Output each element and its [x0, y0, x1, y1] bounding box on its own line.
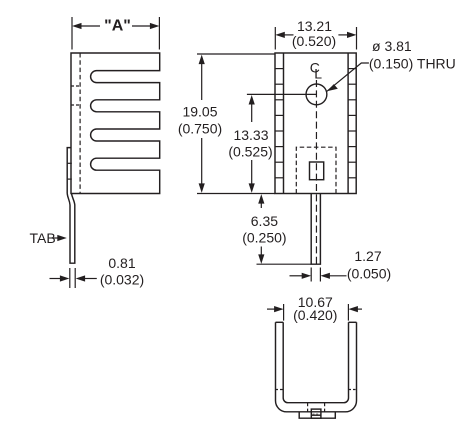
hole leader line [327, 63, 369, 91]
bottom view tab hidden dash inside [313, 413, 320, 415]
die pad square [310, 162, 324, 180]
dimension 1.27 arrow left [290, 273, 312, 279]
dimension 13.21 extension line right [356, 27, 358, 50]
side view hidden bend line (dashed) [79, 53, 81, 194]
dimension 19.05 arrow top [199, 55, 205, 100]
side view heatsink body with fin slots [71, 53, 160, 194]
dimension A arrow left [72, 23, 100, 29]
bottom view tab hidden lines [307, 403, 309, 412]
dimension 6.35 arrow top [258, 194, 264, 208]
dimension 6.35 arrow bottom [258, 247, 264, 264]
svg-text:(0.520): (0.520) [292, 33, 336, 49]
package outline (dashed) [296, 147, 336, 193]
svg-text:ø 3.81: ø 3.81 [372, 38, 412, 54]
tab plate tick 2 [67, 178, 72, 180]
hole center horizontal extension line [247, 93, 317, 95]
front view right fin strip inner line [347, 53, 349, 194]
bottom view right leg top cap [349, 321, 357, 323]
dimension 0.81 arrow left [50, 275, 70, 281]
svg-text:(0.050): (0.050) [347, 266, 391, 282]
side view hidden tick 1 [71, 85, 80, 87]
dimension 10.67 extension line right [347, 304, 349, 321]
side view hidden tick 2 [71, 104, 80, 106]
dimension 10.67 arrow left [267, 306, 284, 312]
dimension 13.21 arrow right [338, 32, 356, 38]
dimension 0.81 extension line left [69, 268, 71, 288]
svg-text:(0.032): (0.032) [100, 272, 144, 288]
dimension 19.05 arrow bottom [199, 138, 205, 193]
tab plate tick 1 [67, 162, 72, 164]
svg-text:13.21: 13.21 [297, 18, 332, 34]
front view body outline [275, 53, 356, 194]
side view tab bend and lower strip [67, 194, 75, 264]
svg-text:19.05: 19.05 [182, 104, 217, 120]
svg-text:(0.750): (0.750) [178, 121, 222, 137]
svg-text:(0.150) THRU: (0.150) THRU [369, 56, 456, 72]
dimension 13.21 extension line left [274, 27, 276, 50]
dimension 13.21 arrow left [275, 32, 293, 38]
svg-text:L: L [314, 65, 322, 81]
svg-text:TAB: TAB [30, 230, 56, 246]
dimension 19.05 / 13.33 extension line bottom [197, 193, 275, 195]
bottom view foot plate [299, 412, 335, 418]
tab bottom extension line [257, 263, 312, 265]
svg-text:(0.250): (0.250) [242, 230, 286, 246]
svg-text:13.33: 13.33 [233, 127, 268, 143]
svg-text:0.81: 0.81 [108, 255, 135, 271]
front view tab below body [311, 194, 320, 265]
dimension 13.33 arrow top [249, 95, 255, 122]
mounting hole [306, 84, 327, 105]
dimension 1.27 arrow right [320, 273, 346, 279]
svg-text:(0.525): (0.525) [228, 144, 272, 160]
front view left strip fin ticks [275, 69, 284, 178]
svg-text:(0.420): (0.420) [293, 307, 337, 323]
dimension 0.81 arrow right [76, 275, 97, 281]
TAB leader arrow [53, 235, 67, 241]
dimension 13.33 arrow bottom [249, 160, 255, 193]
bottom view center tab inner edge [311, 414, 321, 416]
bottom view center tab [311, 409, 321, 418]
front view right strip fin ticks [348, 69, 356, 178]
dimension 10.67 extension line left [283, 304, 285, 321]
bottom view left leg hidden tick [276, 389, 284, 391]
dimension 1.27 extension line left [310, 268, 312, 282]
front view left fin strip inner line [283, 53, 285, 194]
vertical centerline (dashed) [315, 80, 317, 264]
bottom view inner outline [283, 322, 348, 402]
dimension 0.81 extension line right [74, 268, 76, 288]
svg-text:6.35: 6.35 [251, 213, 278, 229]
dimension A extension line left [71, 17, 73, 50]
dimension 19.05 extension line top [197, 53, 275, 55]
dimension A extension line right [158, 17, 160, 50]
dimension 10.67 arrow right [348, 306, 362, 312]
dimension A arrow right [132, 23, 159, 29]
svg-text:1.27: 1.27 [354, 248, 381, 264]
bottom view left leg top cap [276, 321, 284, 323]
bottom view right leg hidden tick [349, 389, 357, 391]
dimension 1.27 extension line right [319, 268, 321, 282]
hole leader arrowhead [327, 84, 338, 91]
bottom view outer outline [276, 322, 357, 412]
side view tab upper plate [67, 148, 71, 194]
svg-text:"A": "A" [104, 18, 131, 35]
